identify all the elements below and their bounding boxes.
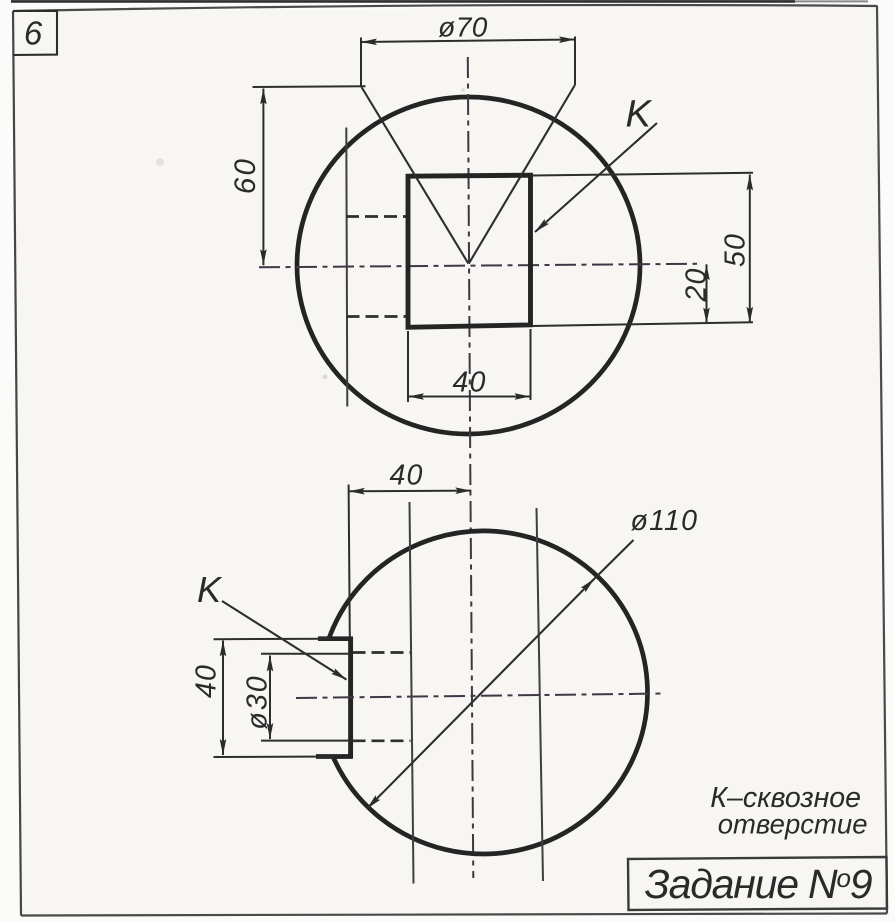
dim50 extension bottom — [532, 322, 753, 326]
scan edge artifact top — [11, 0, 795, 3]
dim40 left dimension line — [222, 641, 224, 756]
dia70 extension left — [360, 38, 362, 88]
hidden hole edge bottom dashed bottom view — [353, 739, 411, 742]
dia30 extension bottom — [261, 740, 352, 742]
dim40 bottom view dimension line — [349, 490, 472, 493]
bottom view sphere circle with notch gap — [329, 531, 647, 854]
hole projection line right — [537, 508, 544, 881]
page number box — [13, 11, 57, 55]
svg-text:20: 20 — [681, 267, 713, 302]
notch bottom extension thin — [214, 756, 335, 759]
dia30 dimension line — [269, 656, 271, 740]
top view sphere circle — [297, 97, 640, 434]
frame bottom border — [21, 914, 887, 916]
notch bottom edge thick — [316, 754, 353, 759]
hidden hole edge upper dashed — [346, 215, 408, 218]
dia70 extension right — [574, 37, 576, 86]
svg-text:ø30: ø30 — [242, 674, 274, 729]
cone line left — [362, 88, 469, 264]
dim50 dimension line — [749, 175, 751, 323]
dim50 extension top — [532, 173, 753, 176]
notch top edge thick — [318, 636, 353, 641]
notch flat face — [348, 637, 353, 759]
dim40 top view dimension line — [408, 396, 531, 398]
cone line right — [469, 86, 575, 264]
svg-text:K: K — [197, 569, 223, 610]
dia110 dimension diagonal — [367, 579, 595, 809]
svg-text:6: 6 — [24, 15, 43, 52]
dim60 dimension line — [262, 89, 264, 266]
hidden hole edge lower dashed — [347, 315, 409, 318]
dia30 extension top — [261, 653, 352, 655]
svg-text:40: 40 — [389, 460, 423, 492]
frame right border — [877, 6, 887, 914]
svg-text:ø70: ø70 — [438, 12, 488, 43]
horizontal centerline bottom view — [296, 694, 665, 699]
horizontal centerline top view — [259, 264, 697, 268]
flat face chord line top view — [346, 128, 347, 407]
svg-text:50: 50 — [720, 233, 752, 267]
notch top extension thin — [214, 638, 331, 641]
dim60 extension top — [253, 85, 366, 88]
svg-text:K: K — [626, 94, 653, 136]
task box — [628, 857, 887, 910]
svg-text:ø110: ø110 — [631, 505, 699, 537]
square hole outline — [408, 175, 531, 327]
dim40 top view extension left — [407, 331, 409, 402]
svg-text:40: 40 — [452, 367, 486, 399]
dia110 leader extension — [594, 540, 633, 579]
svg-text:40: 40 — [191, 664, 223, 698]
svg-text:отверстие: отверстие — [718, 809, 868, 840]
vertical centerline (both views) — [468, 57, 474, 878]
dim20 dimension line — [706, 264, 708, 323]
svg-text:60: 60 — [229, 157, 262, 194]
faint specks — [156, 158, 164, 166]
dia70 dimension line — [361, 40, 575, 43]
hole projection line left — [410, 502, 414, 884]
hidden hole edge top dashed bottom view — [353, 651, 411, 654]
frame left border — [13, 11, 21, 916]
dim40 bottom view extension — [349, 485, 350, 639]
frame top border — [13, 5, 877, 11]
K leader top view — [535, 123, 657, 232]
K leader bottom view — [222, 601, 347, 680]
dim40 top view extension right — [530, 329, 532, 400]
